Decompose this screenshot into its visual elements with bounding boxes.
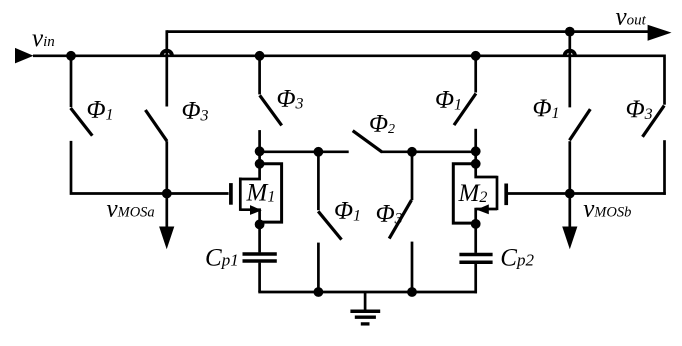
svg-text:Φ3: Φ3 [376,201,403,228]
svg-text:vout: vout [616,4,647,31]
svg-text:Φ3: Φ3 [626,96,653,123]
svg-text:Φ1: Φ1 [533,95,560,122]
svg-text:Φ2: Φ2 [369,111,395,138]
svg-text:Φ1: Φ1 [87,97,114,124]
svg-text:vin: vin [32,25,55,52]
svg-text:Φ3: Φ3 [277,86,304,113]
svg-text:M2: M2 [458,180,488,207]
svg-text:vMOSb: vMOSb [583,195,631,222]
svg-text:Φ3: Φ3 [182,98,209,125]
svg-text:Cp2: Cp2 [500,244,534,271]
svg-text:M1: M1 [246,179,276,206]
svg-text:Cp1: Cp1 [205,244,239,271]
svg-text:Φ1: Φ1 [334,197,361,224]
svg-text:Φ1: Φ1 [435,87,462,114]
svg-text:vMOSa: vMOSa [107,195,155,222]
